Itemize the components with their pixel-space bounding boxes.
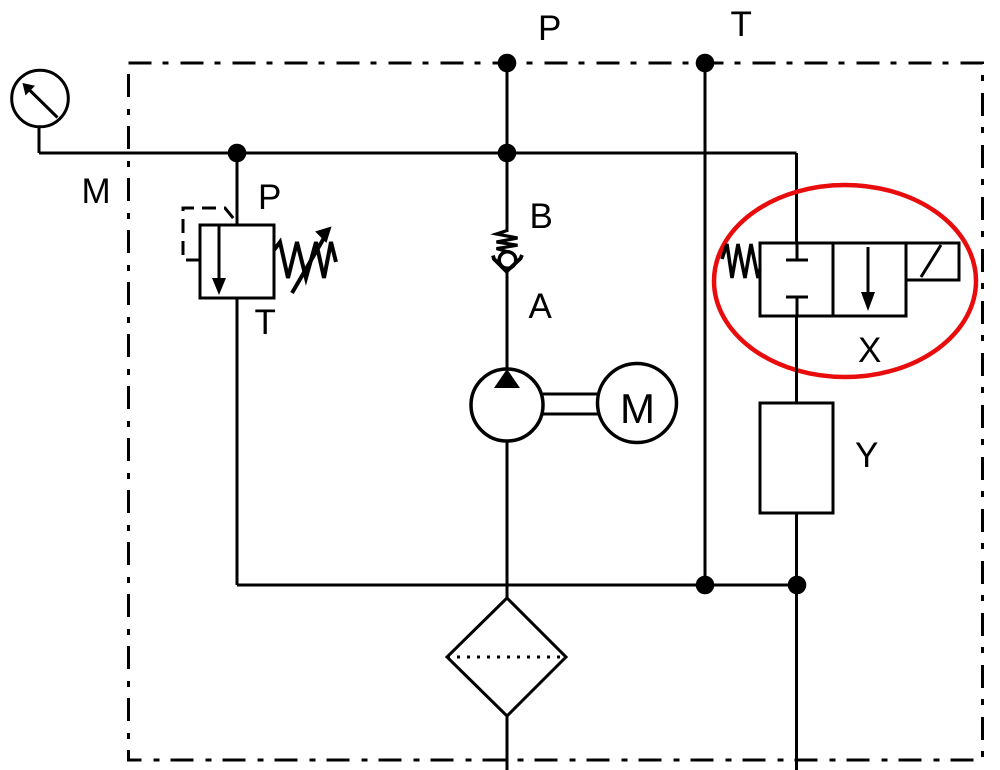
check valve B spring — [497, 231, 518, 252]
pump P1 — [471, 369, 543, 441]
wire: bottom tank header — [237, 584, 797, 587]
svg-text:A: A — [529, 287, 553, 326]
solenoid diagonal — [921, 245, 941, 277]
relief valve V1 spring — [274, 242, 336, 278]
node T (top port) — [696, 54, 715, 73]
svg-text:B: B — [530, 197, 553, 236]
drive shaft coupling — [543, 394, 598, 414]
junction dot at P line — [498, 144, 517, 163]
electric motor M1 — [598, 364, 677, 443]
wire: Y to tank line — [795, 513, 798, 585]
svg-text:P: P — [258, 178, 281, 217]
wire: pilot X branch from manifold — [795, 153, 798, 243]
junction dot T to tank — [696, 576, 715, 595]
valve V2 return spring — [722, 244, 760, 278]
svg-text:P: P — [538, 9, 561, 48]
wire: relief valve branch vertical — [236, 153, 239, 225]
wire: gauge manifold horizontal line — [39, 152, 797, 155]
check valve ball — [499, 252, 516, 269]
check valve seat — [493, 255, 522, 272]
junction dot Y branch — [788, 576, 807, 595]
filter element (dotted) — [447, 656, 566, 659]
wire: T line vertical — [704, 63, 707, 585]
enclosure boundary (dash-dot frame) — [129, 63, 983, 760]
relief valve V1 body — [200, 225, 274, 298]
wire: tank drop right — [795, 585, 798, 770]
svg-text:X: X — [858, 331, 881, 370]
svg-text:Y: Y — [855, 436, 878, 475]
component Y box — [760, 403, 833, 513]
wire: relief valve to tank line — [236, 298, 239, 585]
solenoid actuator box — [906, 243, 959, 280]
svg-text:M: M — [620, 385, 655, 432]
solenoid valve V2 left position box (blocked) — [760, 243, 833, 316]
svg-text:T: T — [255, 303, 276, 342]
blocked port marks — [786, 243, 808, 316]
relief valve V1 adjustment arrow — [292, 238, 324, 293]
wire: P line upper — [506, 63, 509, 232]
node P (top port) — [498, 54, 517, 73]
pump flow triangle — [494, 369, 520, 388]
pressure gauge M — [12, 70, 69, 127]
wire: filter to tank bottom — [506, 716, 509, 770]
filter F1 diamond — [447, 598, 566, 716]
junction dot at relief branch — [228, 144, 247, 163]
flow arrow — [867, 247, 870, 295]
svg-text:M: M — [82, 172, 111, 211]
relief valve V1 pilot line (dashed) — [183, 208, 238, 260]
svg-text:T: T — [731, 5, 752, 44]
wire: gauge stem — [38, 127, 41, 154]
red highlight ellipse — [714, 185, 976, 377]
wire: A line to pump — [506, 271, 509, 369]
wire: valve to orifice Y — [795, 316, 798, 403]
relief valve V1 internal arrow — [218, 225, 221, 281]
wire: pump suction line — [506, 441, 509, 598]
solenoid valve V2 right position box (flow arrow) — [833, 243, 906, 316]
